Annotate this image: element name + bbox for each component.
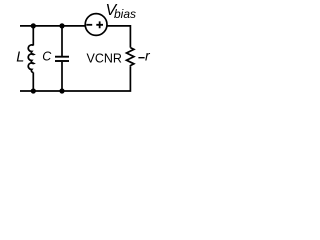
svg-text:C: C bbox=[42, 50, 52, 64]
wire top right segment bbox=[107, 26, 130, 48]
capacitor C1 branch wire top bbox=[61, 26, 63, 56]
inductor L1 branch wire bottom bbox=[32, 72, 34, 91]
svg-text:VCNR: VCNR bbox=[87, 52, 122, 66]
inductor L1 branch wire top bbox=[32, 26, 34, 46]
svg-text:bias: bias bbox=[114, 7, 136, 21]
voltage source Vbias circle bbox=[85, 14, 107, 36]
inductor L1 coil bbox=[28, 45, 33, 73]
voltage source minus sign bbox=[86, 24, 92, 26]
wire bottom bbox=[20, 66, 130, 91]
svg-text:L: L bbox=[16, 50, 24, 66]
label -r minus bbox=[138, 57, 144, 59]
wire top left segment bbox=[20, 25, 85, 27]
resistor -r zigzag bbox=[127, 48, 134, 67]
voltage source plus sign bbox=[96, 21, 103, 28]
junction dot bottom left bbox=[31, 88, 36, 93]
junction dot top mid bbox=[59, 23, 64, 28]
capacitor C1 branch wire bottom bbox=[61, 62, 63, 91]
svg-text:r: r bbox=[145, 48, 151, 64]
capacitor C1 plates bbox=[55, 57, 69, 61]
junction dot top left bbox=[31, 23, 36, 28]
junction dot bottom mid bbox=[59, 88, 64, 93]
